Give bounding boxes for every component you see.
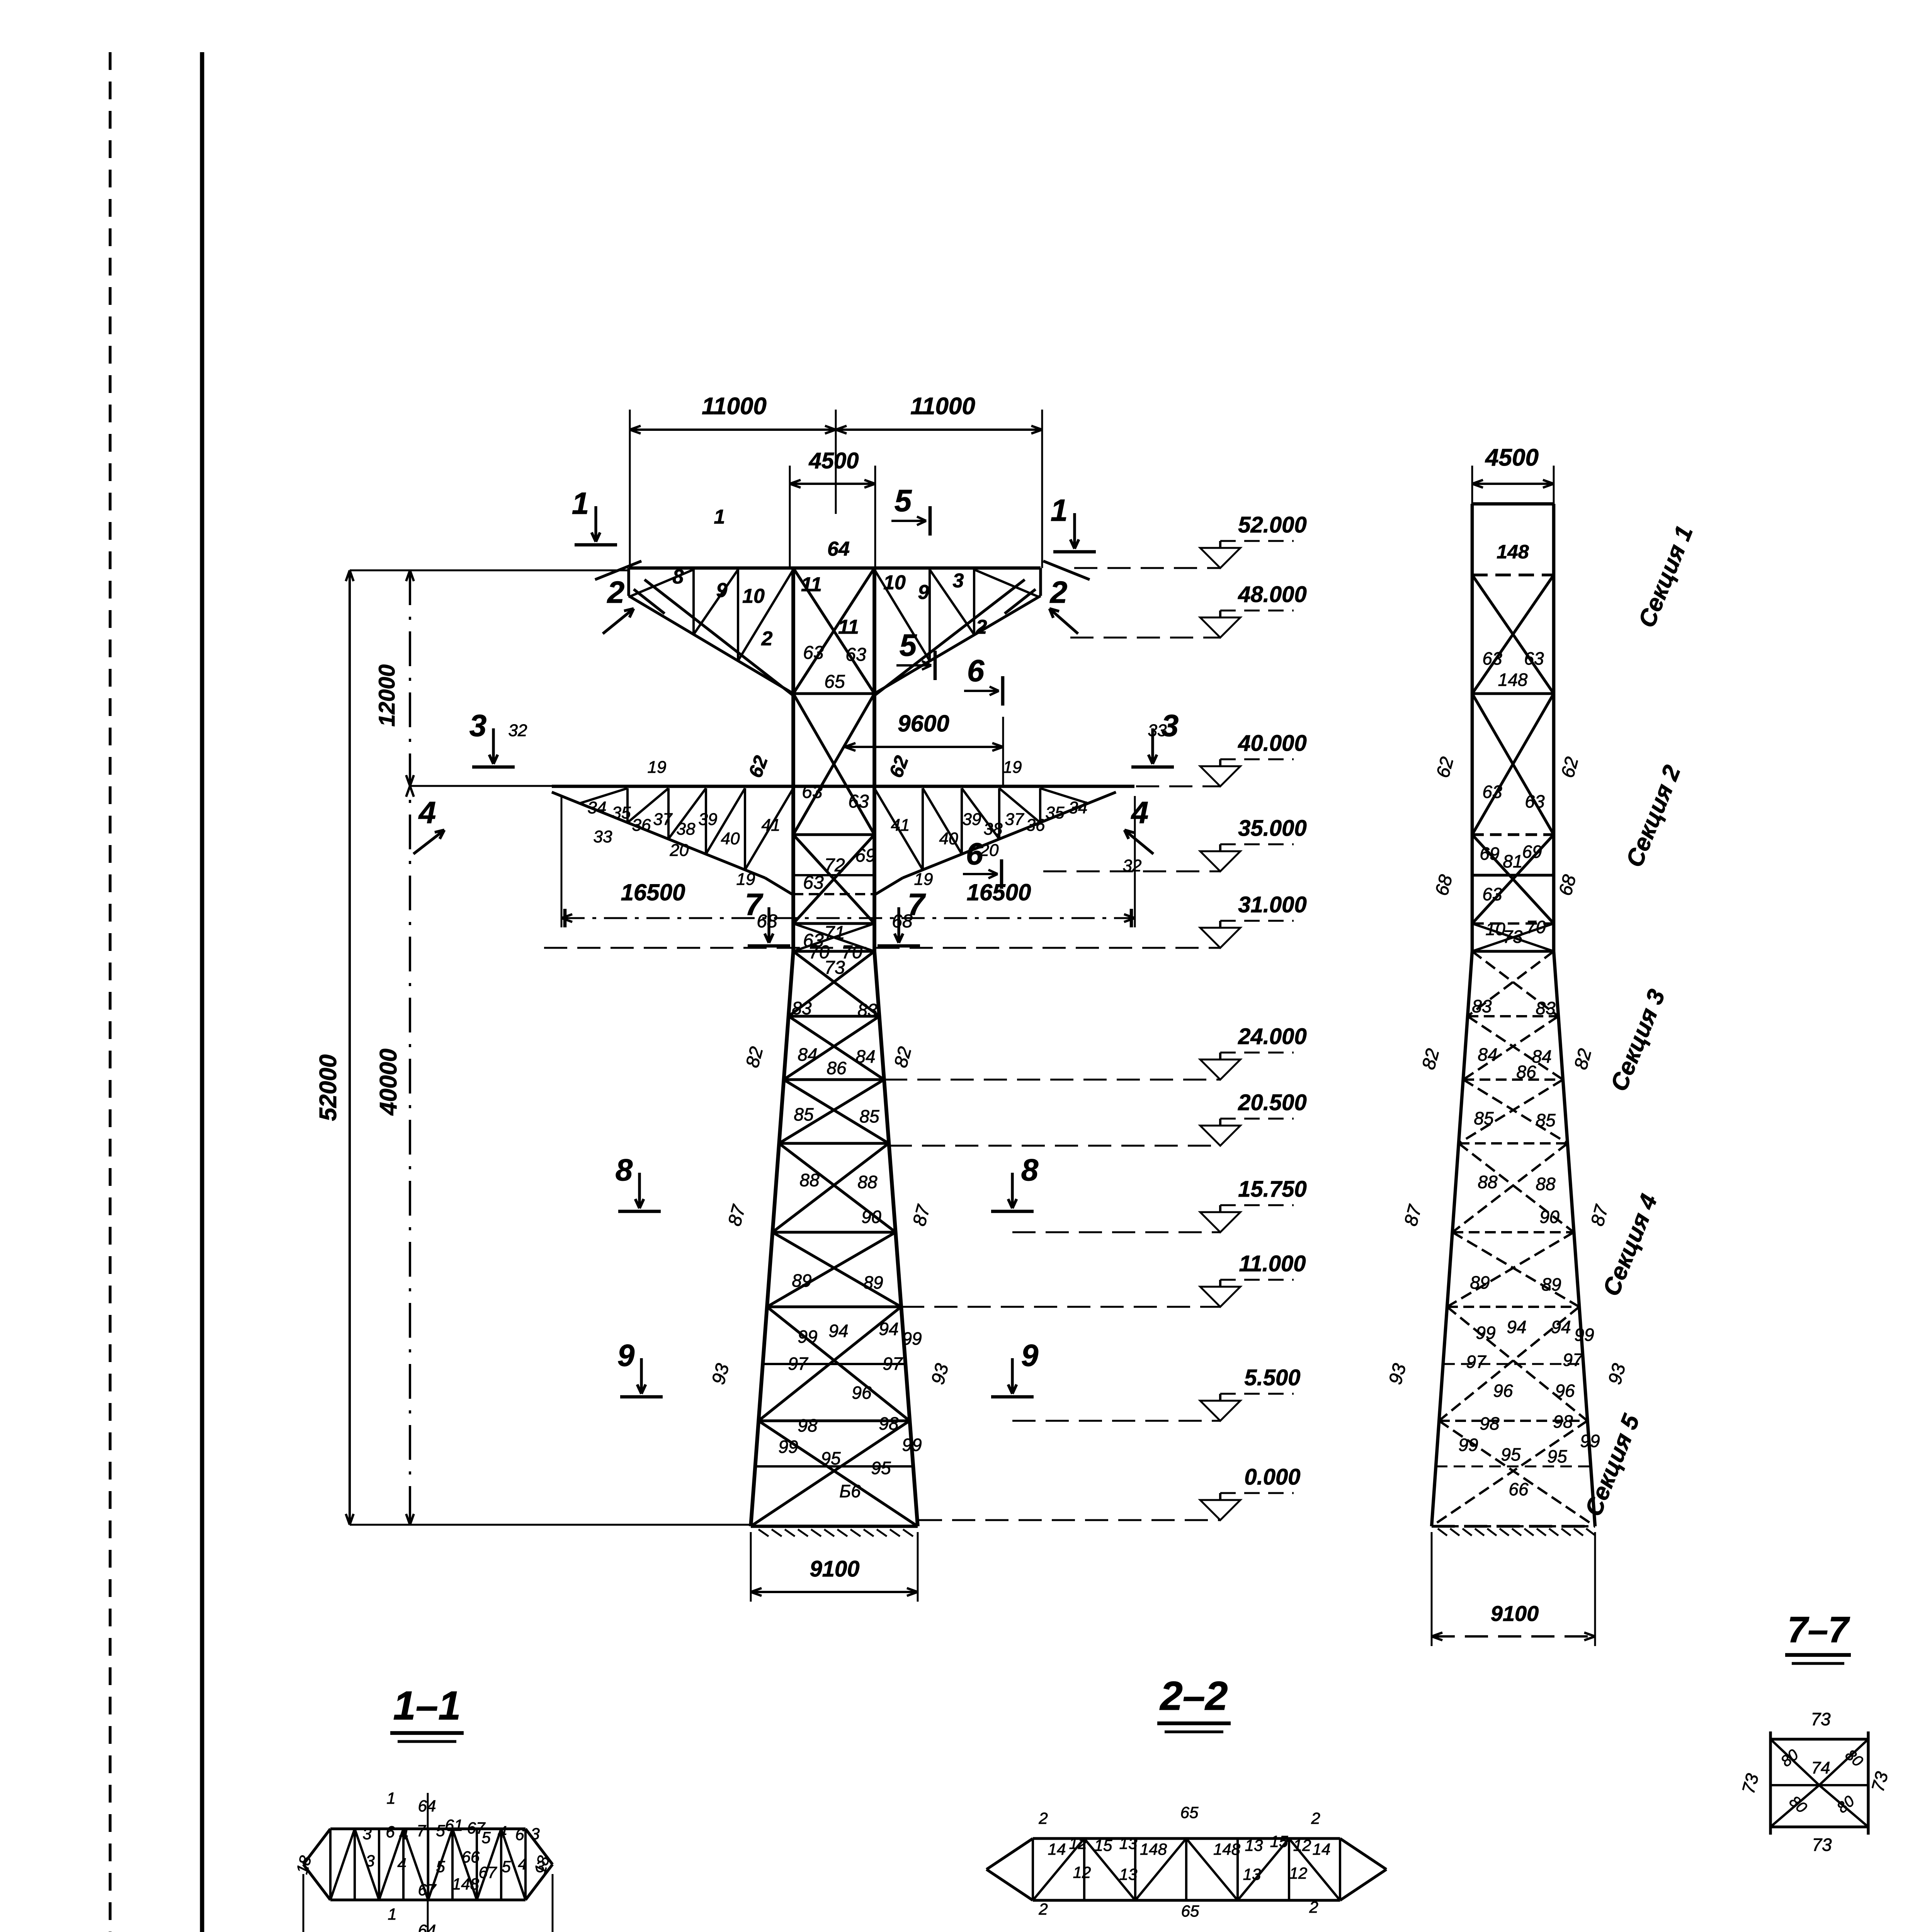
- svg-text:12: 12: [1289, 1864, 1308, 1882]
- svg-text:83: 83: [1536, 998, 1556, 1018]
- svg-text:3: 3: [366, 1852, 374, 1870]
- svg-text:2: 2: [607, 575, 625, 609]
- struts 68 level: [793, 874, 874, 876]
- svg-text:85: 85: [1474, 1108, 1494, 1128]
- svg-text:97: 97: [788, 1354, 808, 1374]
- svg-text:19: 19: [648, 758, 667, 777]
- svg-text:148: 148: [1498, 670, 1528, 690]
- svg-text:89: 89: [863, 1272, 883, 1293]
- svg-text:12000: 12000: [374, 664, 400, 726]
- svg-text:41: 41: [762, 816, 781, 835]
- svg-text:88: 88: [799, 1170, 820, 1190]
- svg-text:2: 2: [1038, 1809, 1048, 1827]
- svg-text:5.500: 5.500: [1244, 1365, 1300, 1390]
- svg-text:71: 71: [824, 923, 845, 943]
- svg-text:11.000: 11.000: [1239, 1251, 1306, 1276]
- svg-text:67: 67: [418, 1881, 437, 1899]
- svg-text:8: 8: [673, 566, 684, 588]
- svg-text:35: 35: [612, 803, 631, 822]
- svg-text:13: 13: [1245, 1836, 1263, 1854]
- svg-text:39: 39: [963, 810, 981, 829]
- svg-text:12: 12: [1069, 1834, 1087, 1852]
- svg-text:148: 148: [452, 1875, 480, 1893]
- page frame left dashed line: [109, 52, 111, 1932]
- svg-text:2–2: 2–2: [1159, 1673, 1228, 1719]
- svg-text:32: 32: [509, 721, 527, 740]
- ground line hatch (front tower): [751, 1525, 918, 1528]
- svg-text:98: 98: [798, 1415, 818, 1435]
- svg-text:13: 13: [1119, 1834, 1138, 1852]
- svg-text:66: 66: [1509, 1479, 1529, 1499]
- svg-text:Секция 3: Секция 3: [1605, 986, 1670, 1095]
- page frame left solid border: [200, 52, 204, 1932]
- front tower: middle traverse: [552, 785, 1134, 788]
- svg-text:96: 96: [1493, 1381, 1513, 1401]
- svg-text:37: 37: [1005, 810, 1024, 829]
- svg-text:148: 148: [1213, 1840, 1241, 1858]
- svg-text:52000: 52000: [315, 1054, 342, 1121]
- svg-text:84: 84: [1478, 1044, 1497, 1065]
- svg-text:85: 85: [859, 1106, 879, 1126]
- svg-text:12: 12: [1293, 1836, 1311, 1854]
- side tower tapered part: [1432, 951, 1472, 1526]
- svg-text:82: 82: [891, 1044, 916, 1070]
- svg-text:11000: 11000: [702, 393, 767, 420]
- svg-text:64: 64: [418, 1797, 436, 1815]
- svg-text:37: 37: [653, 810, 673, 829]
- svg-text:4: 4: [418, 795, 436, 830]
- svg-text:24.000: 24.000: [1238, 1024, 1306, 1049]
- svg-text:86: 86: [827, 1058, 847, 1078]
- dimension 9600: [845, 746, 1003, 748]
- svg-text:39: 39: [699, 810, 718, 829]
- svg-text:98: 98: [1553, 1412, 1573, 1432]
- svg-text:97: 97: [1563, 1350, 1583, 1370]
- svg-text:2: 2: [1038, 1900, 1048, 1918]
- svg-text:Секция 1: Секция 1: [1633, 522, 1698, 631]
- svg-text:4500: 4500: [808, 448, 859, 473]
- svg-text:61: 61: [445, 1816, 463, 1834]
- svg-text:62: 62: [744, 753, 772, 781]
- section 1-1 truss: [330, 1827, 526, 1830]
- svg-text:63: 63: [1524, 648, 1544, 668]
- svg-text:19: 19: [736, 870, 755, 889]
- svg-text:5: 5: [900, 628, 917, 662]
- svg-text:98: 98: [1480, 1413, 1500, 1434]
- svg-text:11000: 11000: [910, 393, 975, 420]
- svg-text:10: 10: [742, 585, 765, 607]
- svg-text:99: 99: [902, 1328, 922, 1349]
- svg-text:62: 62: [885, 753, 913, 781]
- svg-text:94: 94: [1507, 1317, 1526, 1337]
- svg-text:83: 83: [857, 1000, 878, 1020]
- dimension 11000+11000: [630, 429, 1042, 431]
- svg-text:4: 4: [399, 1825, 408, 1843]
- svg-text:9: 9: [1021, 1338, 1039, 1372]
- svg-text:66: 66: [462, 1848, 480, 1866]
- svg-text:7: 7: [908, 887, 926, 922]
- svg-text:88: 88: [857, 1172, 878, 1192]
- svg-text:89: 89: [1541, 1274, 1561, 1294]
- svg-text:5: 5: [481, 1828, 491, 1847]
- svg-text:72: 72: [824, 855, 845, 876]
- svg-text:96: 96: [852, 1383, 872, 1403]
- long diagonal brace 2 (right): [874, 580, 1025, 696]
- svg-text:Секция 4: Секция 4: [1598, 1190, 1663, 1300]
- svg-text:36: 36: [632, 816, 651, 835]
- svg-text:4: 4: [1131, 795, 1149, 830]
- svg-text:99: 99: [1476, 1323, 1495, 1343]
- section 7-7 square: [1770, 1738, 1868, 1740]
- svg-text:87: 87: [1587, 1202, 1613, 1228]
- svg-text:93: 93: [1605, 1361, 1630, 1387]
- svg-text:73: 73: [1503, 927, 1523, 947]
- svg-text:98: 98: [879, 1413, 899, 1434]
- svg-text:5: 5: [436, 1857, 445, 1876]
- svg-text:40: 40: [721, 829, 740, 848]
- svg-text:9: 9: [918, 581, 929, 604]
- svg-text:20: 20: [670, 841, 689, 860]
- svg-text:9100: 9100: [810, 1556, 859, 1582]
- vertical dimension 12000 / 40000: [409, 570, 411, 1525]
- svg-text:63: 63: [1525, 791, 1545, 811]
- svg-text:94: 94: [879, 1319, 898, 1339]
- svg-text:5: 5: [502, 1857, 511, 1876]
- svg-text:62: 62: [1558, 755, 1583, 780]
- front tower: tapered legs: [751, 951, 793, 1526]
- svg-text:5: 5: [895, 483, 912, 518]
- svg-text:74: 74: [1811, 1759, 1830, 1777]
- svg-text:99: 99: [1580, 1431, 1600, 1451]
- svg-text:3: 3: [953, 570, 964, 592]
- svg-text:7: 7: [417, 1821, 426, 1840]
- svg-text:62: 62: [1433, 755, 1458, 780]
- svg-text:20.500: 20.500: [1238, 1090, 1306, 1115]
- svg-text:41: 41: [891, 816, 910, 835]
- svg-text:69: 69: [1522, 842, 1542, 862]
- svg-text:3: 3: [531, 1825, 539, 1843]
- svg-text:95: 95: [1501, 1444, 1521, 1464]
- front tower: prismatic column with X bracing: [791, 568, 795, 951]
- svg-text:65: 65: [1181, 1902, 1199, 1920]
- svg-text:6: 6: [967, 653, 985, 688]
- svg-text:87: 87: [724, 1202, 750, 1228]
- svg-text:14: 14: [1048, 1840, 1066, 1858]
- svg-text:88: 88: [1478, 1172, 1498, 1192]
- svg-text:85: 85: [1536, 1110, 1556, 1130]
- dimension 9100 (side base): [1432, 1635, 1595, 1638]
- svg-text:2: 2: [1049, 575, 1068, 609]
- svg-text:2: 2: [1309, 1898, 1318, 1916]
- svg-text:19: 19: [1003, 758, 1022, 777]
- svg-text:64: 64: [827, 538, 850, 560]
- svg-text:148: 148: [1140, 1840, 1167, 1858]
- svg-text:1: 1: [386, 1789, 395, 1807]
- svg-text:8: 8: [616, 1153, 633, 1187]
- svg-text:15: 15: [1094, 1836, 1112, 1854]
- svg-text:69: 69: [855, 845, 876, 866]
- elevation level lines and flags: [1074, 567, 1220, 569]
- svg-text:69: 69: [1480, 844, 1499, 864]
- svg-text:2: 2: [761, 628, 773, 650]
- svg-text:35.000: 35.000: [1238, 816, 1306, 841]
- svg-text:89: 89: [1470, 1272, 1490, 1293]
- svg-text:3: 3: [362, 1825, 371, 1843]
- svg-text:13: 13: [1119, 1865, 1138, 1883]
- svg-text:1: 1: [572, 486, 589, 520]
- dimension 9100 (front base): [751, 1591, 918, 1593]
- svg-text:4: 4: [518, 1855, 527, 1873]
- svg-text:7–7: 7–7: [1787, 1609, 1850, 1650]
- svg-text:0.000: 0.000: [1244, 1464, 1300, 1490]
- svg-text:10: 10: [883, 571, 906, 594]
- svg-text:1: 1: [1051, 493, 1068, 527]
- svg-text:3: 3: [1162, 708, 1179, 743]
- svg-text:88: 88: [1536, 1174, 1556, 1194]
- front tower: top traverse: [629, 566, 1041, 570]
- svg-text:34: 34: [588, 798, 607, 817]
- svg-text:63: 63: [1482, 782, 1502, 802]
- svg-text:35: 35: [1046, 803, 1065, 822]
- svg-text:63: 63: [1482, 648, 1502, 668]
- svg-text:52.000: 52.000: [1238, 512, 1306, 537]
- section 2-2 truss: [1033, 1837, 1340, 1840]
- svg-text:63: 63: [803, 643, 824, 663]
- dimension 4500 (side): [1472, 483, 1554, 485]
- svg-text:99: 99: [1574, 1325, 1594, 1345]
- svg-text:80: 80: [1842, 1746, 1866, 1770]
- svg-text:83: 83: [792, 998, 812, 1018]
- svg-text:68: 68: [1432, 872, 1457, 898]
- svg-text:99: 99: [778, 1437, 798, 1457]
- svg-text:83: 83: [1472, 996, 1492, 1016]
- svg-text:38: 38: [677, 820, 696, 838]
- vertical dimension 52000: [349, 570, 351, 1525]
- svg-text:93: 93: [708, 1361, 733, 1387]
- svg-text:84: 84: [798, 1044, 817, 1065]
- svg-text:84: 84: [855, 1046, 875, 1066]
- svg-text:14: 14: [1313, 1840, 1331, 1858]
- svg-text:6: 6: [386, 1823, 395, 1841]
- svg-text:1–1: 1–1: [393, 1683, 461, 1728]
- ground line hatch (side tower): [1432, 1525, 1595, 1527]
- svg-text:95: 95: [871, 1458, 891, 1478]
- side tower: [1472, 502, 1554, 506]
- svg-text:32: 32: [1123, 856, 1142, 875]
- svg-text:64: 64: [418, 1921, 436, 1932]
- svg-text:99: 99: [902, 1435, 922, 1455]
- svg-text:65: 65: [824, 672, 845, 692]
- svg-text:97: 97: [883, 1354, 903, 1374]
- section cut marks around front tower: [575, 543, 617, 547]
- svg-text:63: 63: [1482, 884, 1502, 904]
- svg-text:15.750: 15.750: [1238, 1177, 1306, 1202]
- svg-text:81: 81: [1503, 851, 1522, 871]
- svg-text:18: 18: [293, 1854, 315, 1876]
- svg-text:4: 4: [397, 1855, 406, 1873]
- long diagonal brace 2 (left): [645, 580, 793, 696]
- svg-text:18: 18: [531, 1854, 553, 1876]
- svg-text:34: 34: [1069, 798, 1088, 817]
- svg-text:63: 63: [848, 791, 869, 812]
- svg-text:94: 94: [828, 1321, 848, 1341]
- svg-text:95: 95: [1547, 1446, 1567, 1466]
- svg-text:93: 93: [928, 1361, 953, 1387]
- svg-text:16500: 16500: [621, 879, 685, 905]
- svg-text:3: 3: [469, 708, 487, 743]
- svg-text:38: 38: [984, 820, 1003, 838]
- svg-text:97: 97: [1466, 1352, 1486, 1372]
- svg-text:4: 4: [498, 1823, 507, 1841]
- svg-text:73: 73: [1867, 1769, 1892, 1794]
- svg-text:82: 82: [742, 1044, 767, 1070]
- svg-text:87: 87: [1401, 1202, 1426, 1228]
- dimension 16500+16500: [561, 917, 1135, 919]
- svg-text:16500: 16500: [967, 879, 1031, 905]
- svg-text:73: 73: [1812, 1835, 1832, 1855]
- svg-text:5: 5: [436, 1821, 445, 1840]
- svg-text:6: 6: [966, 837, 983, 871]
- svg-text:148: 148: [1497, 541, 1529, 563]
- svg-text:73: 73: [1811, 1709, 1831, 1729]
- svg-text:99: 99: [798, 1327, 817, 1347]
- svg-text:15: 15: [1270, 1832, 1288, 1850]
- svg-text:93: 93: [1385, 1361, 1410, 1387]
- svg-text:Б6: Б6: [839, 1481, 861, 1501]
- svg-text:8: 8: [1021, 1153, 1039, 1187]
- svg-text:68: 68: [1555, 872, 1580, 898]
- dimension 4500 (front): [790, 483, 875, 485]
- svg-text:19: 19: [914, 870, 933, 889]
- svg-text:9: 9: [716, 579, 728, 602]
- svg-text:90: 90: [1539, 1207, 1560, 1227]
- svg-text:99: 99: [1458, 1435, 1478, 1455]
- svg-text:33: 33: [594, 827, 612, 846]
- svg-text:65: 65: [1180, 1803, 1199, 1821]
- svg-text:48.000: 48.000: [1238, 582, 1306, 607]
- svg-text:36: 36: [1026, 816, 1045, 835]
- svg-text:9: 9: [617, 1338, 635, 1372]
- svg-text:Секция 2: Секция 2: [1621, 762, 1686, 871]
- svg-text:13: 13: [1243, 1865, 1261, 1883]
- svg-text:87: 87: [909, 1202, 935, 1228]
- svg-text:82: 82: [1571, 1046, 1596, 1071]
- svg-text:2: 2: [1311, 1809, 1320, 1827]
- svg-text:2: 2: [976, 616, 987, 638]
- svg-text:80: 80: [1833, 1793, 1857, 1816]
- svg-text:1: 1: [388, 1905, 396, 1923]
- svg-text:90: 90: [861, 1207, 881, 1227]
- svg-text:85: 85: [794, 1104, 814, 1124]
- svg-text:12: 12: [1073, 1863, 1091, 1881]
- svg-text:96: 96: [1555, 1381, 1575, 1401]
- svg-text:40.000: 40.000: [1238, 731, 1306, 756]
- svg-text:95: 95: [821, 1448, 841, 1468]
- svg-text:89: 89: [792, 1270, 811, 1291]
- svg-text:73: 73: [1738, 1771, 1763, 1796]
- svg-text:40000: 40000: [375, 1049, 402, 1116]
- svg-text:86: 86: [1516, 1062, 1536, 1082]
- svg-text:7: 7: [745, 887, 764, 922]
- svg-text:82: 82: [1418, 1046, 1444, 1071]
- svg-text:31.000: 31.000: [1238, 892, 1306, 917]
- svg-text:9600: 9600: [898, 711, 949, 736]
- svg-text:94: 94: [1551, 1317, 1571, 1337]
- svg-text:1: 1: [714, 506, 725, 528]
- svg-text:10: 10: [1485, 919, 1505, 939]
- svg-text:63: 63: [845, 645, 866, 665]
- svg-text:70: 70: [1526, 917, 1546, 937]
- svg-text:67: 67: [479, 1863, 497, 1881]
- svg-text:9100: 9100: [1491, 1601, 1539, 1626]
- svg-text:4500: 4500: [1485, 444, 1539, 471]
- svg-text:6: 6: [515, 1825, 524, 1844]
- svg-text:40: 40: [939, 829, 958, 848]
